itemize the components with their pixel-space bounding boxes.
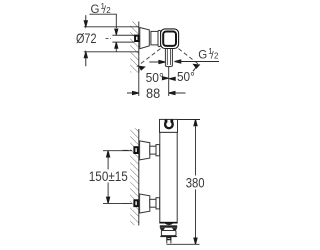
top inlet nipple: [150, 146, 156, 154]
dimension 380: [167, 120, 205, 245]
angle arc arrow right lower (at centerline): [169, 77, 175, 80]
label G1/2 (right): [175, 47, 220, 62]
lower inlet union nut: [156, 198, 160, 209]
lower inlet nipple: [150, 199, 156, 207]
dimension 88: [127, 67, 186, 101]
extension line right (from stem center): [168, 67, 170, 96]
dim line + outside arrows: [127, 91, 186, 94]
angle arc arrow left lower (at centerline): [162, 77, 168, 80]
extension lines: [178, 119, 201, 121]
escutcheon cone (top view): [140, 28, 150, 49]
svg-text:50°: 50°: [146, 70, 164, 85]
swivel dashed line left: [137, 49, 161, 67]
pipe centerline (top view): [106, 38, 111, 40]
outlet stub: [167, 238, 171, 244]
arrow to pipe bottom (G1/2 thread): [115, 42, 117, 52]
angle 50 deg left: arrow at stem: [139, 60, 165, 70]
top inlet escutcheon cone: [140, 141, 150, 160]
lower inlet escutcheon cone: [140, 194, 150, 213]
svg-text:Ø72: Ø72: [76, 30, 97, 46]
wall line (front view): [138, 129, 140, 226]
dimension Ø72 extent lines: [84, 27, 139, 52]
angle 50 deg left: arrow at dashed end: [139, 66, 145, 70]
svg-text:2: 2: [106, 6, 111, 15]
top inlet centerline: [123, 149, 133, 151]
wall line (top view): [138, 22, 140, 73]
extension lines: [103, 150, 132, 152]
handle base ring (top view): [158, 30, 161, 46]
handle rounded square (top view): [161, 29, 179, 49]
outlet collar: [159, 223, 177, 231]
main body: [160, 132, 177, 222]
lower inlet elbow in wall: [134, 200, 137, 206]
svg-text:88: 88: [146, 85, 160, 101]
svg-text:2: 2: [214, 52, 219, 61]
valve body (top view): [151, 31, 158, 45]
body top cap: [160, 119, 178, 132]
leader G1/2 right: [175, 61, 220, 63]
svg-text:150±15: 150±15: [89, 169, 128, 184]
dimension 150±15: [89, 151, 132, 204]
svg-text:G: G: [198, 50, 207, 62]
angle 50 deg right: arrow at dashed end: [194, 64, 200, 68]
outlet dark band: [160, 225, 177, 227]
dim line broken for text: [107, 151, 109, 170]
top inlet union nut: [156, 145, 160, 156]
svg-text:380: 380: [186, 176, 205, 191]
lower inlet centerline: [123, 202, 133, 204]
lever stem (top view): [165, 49, 172, 67]
hanger ring (thick U): [165, 119, 173, 128]
svg-text:50°: 50°: [177, 69, 195, 84]
top inlet elbow in wall: [134, 147, 137, 153]
angle 50 deg right: arrow at stem: [175, 60, 200, 71]
wall hatch (top view): [130, 22, 139, 73]
elbow fitting in wall (top view): [135, 36, 138, 41]
extension line left (from dashed end): [138, 68, 140, 97]
union pipe (top view): [112, 35, 134, 42]
label G1/2 (top-left): [89, 2, 117, 52]
wall hatch (front view): [130, 128, 139, 225]
dim line broken for text: [195, 120, 197, 176]
outlet ring: [160, 231, 178, 238]
swivel dashed line right: [179, 49, 200, 65]
dimension Ø72 arrows: [84, 15, 87, 66]
leader G1/2 top: [89, 14, 116, 28]
